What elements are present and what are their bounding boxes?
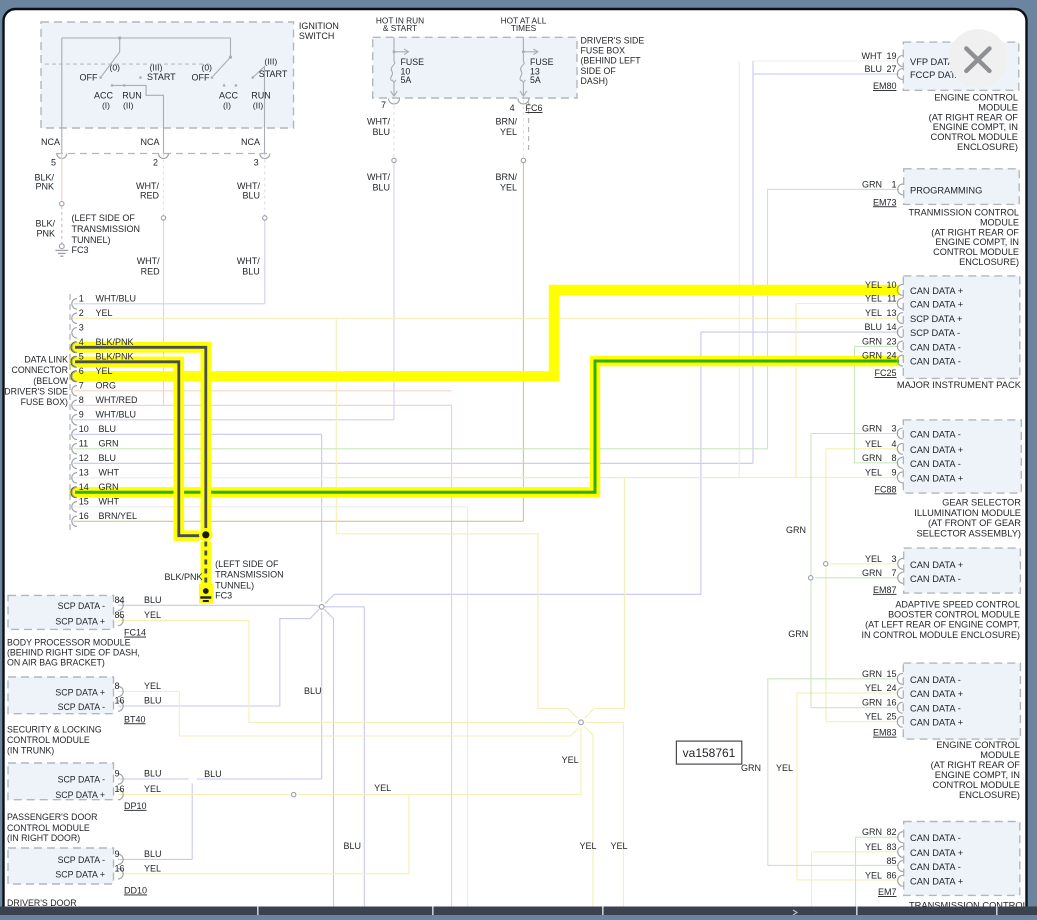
svg-text:TIMES: TIMES: [511, 23, 537, 33]
svg-text:GRN: GRN: [862, 698, 882, 708]
svg-text:GRN: GRN: [862, 453, 882, 463]
svg-text:14: 14: [886, 322, 896, 332]
svg-text:GRN: GRN: [862, 336, 882, 346]
svg-text:9: 9: [115, 769, 120, 779]
svg-text:23: 23: [886, 336, 896, 346]
highlight blobs at DLC pins 4 5 6 14: [69, 342, 80, 353]
wire YEL CAN DATA + FC88 pin9 long horizontal: [336, 476, 899, 478]
wire BLK/PNK ignition pin5 down: [61, 154, 63, 202]
data link connector pin hooks: [72, 299, 77, 309]
ignition switch wiper 2: [229, 56, 232, 59]
svg-text:START: START: [147, 72, 176, 82]
svg-text:YEL: YEL: [865, 439, 882, 449]
svg-text:16: 16: [886, 698, 896, 708]
svg-text:CAN DATA -: CAN DATA -: [910, 862, 961, 872]
inline connector fuse10 wire: [392, 158, 396, 162]
svg-text:1: 1: [891, 179, 896, 189]
svg-text:YEL: YEL: [500, 182, 517, 192]
ignition switch RUN output wire to pin2: [112, 85, 164, 153]
svg-text:24: 24: [886, 683, 896, 693]
inline connector pin5: [60, 202, 64, 206]
svg-text:(BEHIND LEFT: (BEHIND LEFT: [581, 56, 642, 66]
wire YEL to junction northeast: [585, 477, 625, 718]
wire YEL junction southeast to bottom: [584, 726, 593, 907]
svg-text:5A: 5A: [530, 75, 541, 85]
svg-text:BLU: BLU: [99, 424, 117, 434]
wire WHT/RED ignition pin2 down: [163, 154, 165, 216]
wire GRN FC25 pin23 to FC88 pin8: [855, 346, 900, 462]
module BT40 security and locking box: [8, 677, 114, 714]
svg-text:SIDE OF: SIDE OF: [581, 66, 617, 76]
svg-text:BLU: BLU: [144, 769, 162, 779]
wire YEL SCP DATA + DLC pin2 to FC25 pin13: [74, 317, 899, 319]
svg-text:YEL: YEL: [865, 871, 882, 881]
svg-text:SWITCH: SWITCH: [299, 31, 335, 41]
svg-text:GRN: GRN: [741, 763, 761, 773]
svg-text:1: 1: [79, 293, 84, 303]
svg-text:7: 7: [891, 568, 896, 578]
svg-text:MODULE: MODULE: [980, 750, 1020, 760]
svg-text:27: 27: [886, 64, 896, 74]
wire WHT/BLU ignition pin3 to DLC pin1: [264, 154, 266, 216]
bottom bar chevron: [793, 910, 797, 915]
svg-text:(AT RIGHT REAR OF: (AT RIGHT REAR OF: [931, 227, 1019, 237]
wire GRN EM83 pin15 to EM7 pin85: [768, 679, 899, 866]
svg-text:CAN DATA +: CAN DATA +: [910, 689, 963, 699]
svg-text:YEL: YEL: [579, 841, 596, 851]
svg-text:2: 2: [153, 158, 158, 168]
svg-text:86: 86: [886, 871, 896, 881]
svg-text:OFF: OFF: [80, 73, 98, 83]
svg-text:YEL: YEL: [865, 294, 882, 304]
svg-text:DRIVER'S DOOR: DRIVER'S DOOR: [7, 898, 77, 908]
svg-text:BRN/YEL: BRN/YEL: [99, 511, 138, 521]
wire GRN DLC pin11 to TCM EM73 pin1: [74, 189, 899, 448]
svg-text:ORG: ORG: [96, 380, 117, 390]
svg-text:TUNNEL): TUNNEL): [72, 235, 111, 245]
svg-text:BLU: BLU: [144, 849, 162, 859]
svg-text:PASSENGER'S DOOR: PASSENGER'S DOOR: [7, 812, 97, 822]
wire YEL CAN DATA + highlighted: DLC pin6 to FC25 pin10: [75, 290, 899, 376]
svg-text:ENCLOSURE): ENCLOSURE): [959, 257, 1019, 267]
close button (X): [949, 29, 1007, 87]
module FC14 body processor box: [8, 595, 114, 629]
svg-text:CONTROL MODULE: CONTROL MODULE: [931, 132, 1018, 142]
svg-text:YEL: YEL: [610, 841, 627, 851]
svg-text:SCP DATA -: SCP DATA -: [58, 601, 105, 611]
svg-text:(I): (I): [223, 101, 231, 111]
svg-text:IGNITION: IGNITION: [299, 21, 339, 31]
svg-text:CONTROL MODULE: CONTROL MODULE: [933, 780, 1020, 790]
svg-text:YEL: YEL: [96, 366, 113, 376]
svg-text:13: 13: [886, 308, 896, 318]
svg-text:9: 9: [115, 849, 120, 859]
svg-text:11: 11: [79, 438, 88, 448]
ignition connector pin hooks: [57, 154, 67, 159]
svg-text:BLK/: BLK/: [35, 219, 55, 229]
svg-text:WHT/BLU: WHT/BLU: [96, 409, 137, 419]
wire BLK/PNK DLC pin4 highlighted: [75, 347, 206, 530]
svg-text:YEL: YEL: [562, 755, 579, 765]
svg-text:BLU: BLU: [144, 696, 162, 706]
connector FC6 dashed stub: [528, 100, 530, 152]
svg-text:3: 3: [891, 554, 896, 564]
wire BLK/PNK dashed to ground FC3: [201, 542, 212, 585]
svg-text:VFP DATA: VFP DATA: [910, 57, 955, 67]
svg-text:(II): (II): [123, 101, 134, 111]
svg-text:GRN: GRN: [862, 827, 882, 837]
svg-text:BLU: BLU: [372, 182, 390, 192]
svg-text:YEL: YEL: [500, 127, 517, 137]
bottom taskbar: [0, 907, 1037, 916]
svg-text:FC3: FC3: [72, 245, 89, 255]
svg-text:ENGINE COMPT, IN: ENGINE COMPT, IN: [933, 122, 1018, 132]
svg-text:3: 3: [79, 322, 84, 332]
svg-text:4: 4: [79, 337, 84, 347]
module FC25 major instrument pack box: [903, 276, 1020, 379]
svg-text:YEL: YEL: [96, 308, 113, 318]
inline connector pin3: [263, 216, 267, 220]
svg-text:TUNNEL): TUNNEL): [215, 580, 254, 590]
wire BLU junction east to bottom: [325, 606, 365, 608]
svg-text:DASH): DASH): [581, 76, 608, 86]
svg-text:va158761: va158761: [683, 746, 736, 760]
svg-text:16: 16: [79, 511, 89, 521]
svg-text:FC6: FC6: [526, 103, 543, 113]
svg-text:(LEFT SIDE OF: (LEFT SIDE OF: [215, 559, 279, 569]
fuse element: [522, 38, 524, 62]
svg-text:85: 85: [886, 856, 896, 866]
svg-text:WHT/: WHT/: [237, 256, 260, 266]
svg-text:TRANSMISSION: TRANSMISSION: [215, 570, 284, 580]
svg-text:WHT: WHT: [99, 496, 120, 506]
svg-text:5A: 5A: [401, 75, 412, 85]
svg-text:ENGINE COMPT, IN: ENGINE COMPT, IN: [935, 237, 1019, 247]
svg-text:SCP DATA +: SCP DATA +: [55, 869, 105, 879]
svg-text:CAN DATA +: CAN DATA +: [910, 560, 963, 570]
svg-text:12: 12: [79, 453, 89, 463]
svg-text:WHT/: WHT/: [136, 181, 159, 191]
svg-text:9: 9: [891, 467, 896, 477]
svg-text:ON AIR BAG BRACKET): ON AIR BAG BRACKET): [7, 658, 105, 668]
driver side fuse box: [373, 37, 577, 98]
svg-text:15: 15: [886, 669, 896, 679]
svg-text:25: 25: [886, 712, 896, 722]
svg-text:(IN RIGHT DOOR): (IN RIGHT DOOR): [7, 833, 80, 843]
svg-text:BLU: BLU: [204, 769, 222, 779]
svg-text:(LEFT SIDE OF: (LEFT SIDE OF: [72, 213, 136, 223]
svg-text:4: 4: [891, 439, 896, 449]
svg-text:EM73: EM73: [873, 197, 897, 207]
svg-text:YEL: YEL: [374, 783, 391, 793]
svg-text:(BELOW: (BELOW: [33, 376, 68, 386]
svg-text:DP10: DP10: [124, 801, 147, 811]
wire BLU junction southeast to bottom: [324, 609, 333, 906]
svg-text:SCP DATA -: SCP DATA -: [58, 855, 105, 865]
svg-text:4: 4: [510, 103, 515, 113]
ignition switch START output wire to pin3: [253, 67, 265, 154]
svg-text:BOOSTER CONTROL MODULE: BOOSTER CONTROL MODULE: [888, 610, 1020, 620]
svg-text:DD10: DD10: [124, 886, 147, 896]
svg-text:YEL: YEL: [144, 784, 161, 794]
inline connector pin2: [161, 216, 165, 220]
svg-text:DRIVER'S SIDE: DRIVER'S SIDE: [581, 36, 645, 46]
svg-text:FC3: FC3: [215, 590, 232, 600]
svg-text:(IN TRUNK): (IN TRUNK): [7, 746, 54, 756]
svg-text:& START: & START: [383, 23, 417, 33]
ignition switch box: [41, 22, 294, 128]
wire GRN EM7 pin82 down: [855, 837, 857, 906]
svg-text:CAN DATA -: CAN DATA -: [910, 704, 961, 714]
svg-text:(II): (II): [253, 101, 264, 111]
svg-text:9: 9: [79, 409, 84, 419]
svg-text:8: 8: [79, 395, 84, 405]
svg-text:GRN: GRN: [862, 179, 882, 189]
wire YEL junction east to bottom: [586, 722, 624, 906]
svg-text:(III): (III): [150, 63, 163, 73]
svg-text:ADAPTIVE SPEED CONTROL: ADAPTIVE SPEED CONTROL: [895, 599, 1020, 609]
svg-text:15: 15: [79, 496, 89, 506]
svg-text:8: 8: [115, 681, 120, 691]
svg-text:CAN DATA -: CAN DATA -: [910, 459, 961, 469]
wire YEL branch down from pin2 row: [335, 318, 337, 534]
svg-text:82: 82: [886, 827, 896, 837]
svg-text:85: 85: [115, 610, 125, 620]
svg-text:TRANMISSION CONTROL: TRANMISSION CONTROL: [908, 208, 1019, 218]
wire WHT DLC pin15: [74, 506, 468, 508]
svg-text:MAJOR INSTRUMENT PACK: MAJOR INSTRUMENT PACK: [897, 379, 1022, 390]
inline connector EM87 GRN pin7: [809, 576, 813, 580]
inline connector EM87 YEL pin3: [824, 562, 828, 566]
svg-text:EM80: EM80: [873, 81, 897, 91]
wire YEL to junction northwest: [336, 534, 577, 718]
svg-text:BODY PROCESSOR MODULE: BODY PROCESSOR MODULE: [7, 638, 131, 648]
wire BLU junction to FC25 pin14 SCP DATA -: [325, 332, 899, 603]
svg-text:WHT/: WHT/: [137, 256, 160, 266]
wire GRN CAN DATA - highlighted: DLC pin14 to FC25 pin24: [75, 361, 899, 492]
svg-text:FUSE BOX): FUSE BOX): [21, 397, 68, 407]
svg-text:CONTROL MODULE: CONTROL MODULE: [933, 247, 1019, 257]
svg-text:BLU: BLU: [242, 267, 260, 277]
svg-text:GRN: GRN: [99, 438, 119, 448]
ignition switch internal bus: [62, 37, 231, 39]
svg-text:13: 13: [79, 467, 89, 477]
ignition switch wiper 1: [118, 36, 121, 39]
svg-text:GRN: GRN: [862, 424, 882, 434]
svg-text:3: 3: [254, 158, 259, 168]
svg-text:CAN DATA -: CAN DATA -: [910, 430, 961, 440]
module EM7 transmission control box: [904, 822, 1020, 896]
svg-text:PROGRAMMING: PROGRAMMING: [910, 185, 982, 195]
svg-text:EM7: EM7: [878, 887, 897, 897]
svg-text:WHT/: WHT/: [367, 172, 390, 182]
svg-text:24: 24: [886, 351, 896, 361]
wire BLU junction down to DP10 pin9: [321, 612, 323, 780]
svg-text:RUN: RUN: [251, 91, 271, 101]
svg-text:FC14: FC14: [124, 628, 146, 638]
svg-text:BLU: BLU: [864, 322, 882, 332]
svg-text:(AT RIGHT REAR OF: (AT RIGHT REAR OF: [929, 112, 1019, 122]
svg-text:(AT LEFT REAR OF ENGINE COMPT,: (AT LEFT REAR OF ENGINE COMPT,: [865, 620, 1020, 630]
wire YEL EM7 pin83 down: [811, 852, 813, 907]
svg-text:WHT: WHT: [99, 467, 120, 477]
svg-text:FC25: FC25: [874, 368, 896, 378]
svg-text:CAN DATA -: CAN DATA -: [910, 833, 961, 843]
fuse box bottom pin hooks: [389, 99, 400, 105]
svg-text:84: 84: [115, 595, 125, 605]
svg-text:ENGINE CONTROL: ENGINE CONTROL: [936, 740, 1020, 750]
svg-text:2: 2: [79, 308, 84, 318]
svg-text:RED: RED: [141, 267, 161, 277]
wire BLU DLC pin12 to ECM EM80 pin27: [74, 462, 753, 464]
wire BRN/YEL fuse13 to DLC pin16: [522, 100, 524, 158]
wire WHT DLC pin13: [74, 477, 740, 479]
svg-text:CAN DATA -: CAN DATA -: [910, 675, 961, 685]
svg-text:16: 16: [115, 784, 125, 794]
wire YEL junction south to DP10 pin16: [580, 727, 582, 795]
svg-text:GRN: GRN: [862, 669, 882, 679]
data link connector dashed edge: [69, 294, 71, 531]
svg-text:PNK: PNK: [35, 182, 54, 192]
svg-text:GRN: GRN: [862, 351, 882, 361]
svg-text:10: 10: [886, 280, 896, 290]
svg-text:DRIVER'S SIDE: DRIVER'S SIDE: [4, 387, 68, 397]
svg-text:19: 19: [886, 51, 896, 61]
ignition connector dashed line: [56, 153, 270, 155]
module FC88 gear selector illumination box: [903, 420, 1021, 493]
svg-text:BT40: BT40: [124, 714, 146, 724]
svg-text:MODULE: MODULE: [980, 217, 1019, 227]
svg-text:7: 7: [79, 380, 84, 390]
svg-text:YEL: YEL: [144, 863, 161, 873]
svg-text:ILLUMINATION MODULE: ILLUMINATION MODULE: [914, 508, 1021, 518]
svg-text:CAN DATA -: CAN DATA -: [910, 574, 961, 584]
module TCM EM73 box: [904, 169, 1020, 205]
svg-text:GEAR SELECTOR: GEAR SELECTOR: [942, 498, 1021, 508]
svg-text:3: 3: [891, 424, 896, 434]
svg-text:NCA: NCA: [140, 137, 159, 147]
junction node YEL (inline connector): [579, 720, 584, 725]
svg-text:CAN DATA -: CAN DATA -: [910, 342, 961, 352]
svg-text:ENCLOSURE): ENCLOSURE): [957, 142, 1018, 152]
svg-text:(AT RIGHT REAR OF: (AT RIGHT REAR OF: [931, 760, 1021, 770]
wire GRN CAN- FC88 pin3 / EM87 pin7 / EM83 pin16 riser: [810, 434, 812, 708]
svg-text:6: 6: [79, 366, 84, 376]
wire WHT/RED DLC pin8: [74, 404, 452, 406]
svg-text:YEL: YEL: [865, 712, 882, 722]
inline connector fuse13 wire: [521, 158, 525, 162]
module EM83 engine control box: [903, 663, 1020, 739]
wire YEL DD10 pin16 riser: [118, 873, 409, 875]
svg-text:5: 5: [79, 351, 84, 361]
svg-text:YEL: YEL: [865, 554, 882, 564]
svg-text:BRN/: BRN/: [495, 172, 517, 182]
svg-text:BLU: BLU: [372, 127, 390, 137]
module EM87 adaptive speed control box: [904, 548, 1021, 593]
svg-text:ACC: ACC: [219, 91, 239, 101]
svg-text:CAN DATA +: CAN DATA +: [910, 300, 963, 310]
wire YEL FC14 pin85 to junction west: [118, 620, 576, 722]
module DD10 driver door box: [8, 848, 114, 884]
svg-text:OFF: OFF: [192, 73, 210, 83]
svg-text:CAN DATA +: CAN DATA +: [910, 286, 963, 296]
svg-text:GRN: GRN: [786, 525, 806, 535]
svg-text:BLU: BLU: [99, 453, 117, 463]
fuse element: [393, 38, 395, 62]
svg-text:CAN DATA +: CAN DATA +: [910, 473, 963, 483]
svg-text:SCP DATA -: SCP DATA -: [910, 328, 960, 338]
svg-text:(0): (0): [202, 63, 213, 73]
wire BLU junction to BT40 pin16: [118, 609, 319, 706]
svg-text:(III): (III): [264, 57, 277, 67]
ignition switch contacts: [99, 76, 102, 79]
svg-text:BLK/PNK: BLK/PNK: [96, 351, 134, 361]
svg-text:YEL: YEL: [144, 610, 161, 620]
ground FC3 (upper): [59, 244, 64, 249]
svg-text:EM87: EM87: [873, 585, 897, 595]
svg-text:SCP DATA +: SCP DATA +: [910, 314, 962, 324]
svg-text:SECURITY & LOCKING: SECURITY & LOCKING: [7, 725, 102, 735]
svg-text:NCA: NCA: [241, 137, 260, 147]
svg-text:CAN DATA +: CAN DATA +: [910, 718, 963, 728]
svg-text:8: 8: [891, 453, 896, 463]
svg-text:GRN: GRN: [862, 568, 882, 578]
svg-text:MODULE: MODULE: [978, 102, 1018, 112]
svg-text:EM83: EM83: [873, 728, 897, 738]
wire BLU DD10 pin9 riser: [191, 784, 193, 860]
svg-text:ENGINE CONTROL: ENGINE CONTROL: [934, 93, 1018, 103]
svg-text:CONTROL MODULE: CONTROL MODULE: [7, 823, 90, 833]
svg-text:11: 11: [887, 294, 896, 304]
svg-text:SCP DATA -: SCP DATA -: [58, 774, 105, 784]
wire YEL EM83 pin24 to EM7 pin86: [797, 693, 899, 880]
svg-text:YEL: YEL: [865, 683, 882, 693]
module ECM EM80 box: [903, 42, 1019, 90]
svg-text:CAN DATA -: CAN DATA -: [910, 357, 961, 367]
wire BLU DLC pin10 to junction: [74, 433, 322, 435]
junction node BLU (inline connector): [319, 604, 324, 609]
svg-text:WHT/RED: WHT/RED: [96, 395, 138, 405]
svg-text:RUN: RUN: [122, 91, 142, 101]
svg-text:GRN: GRN: [788, 629, 808, 639]
svg-text:START: START: [259, 69, 288, 79]
svg-text:YEL: YEL: [144, 681, 161, 691]
svg-text:CAN DATA +: CAN DATA +: [910, 877, 963, 887]
svg-text:YEL: YEL: [865, 308, 882, 318]
svg-text:(I): (I): [102, 101, 110, 111]
ignition switch mechanical linkage (dashed): [45, 63, 209, 65]
svg-text:IN CONTROL MODULE ENCLOSURE): IN CONTROL MODULE ENCLOSURE): [861, 630, 1020, 640]
svg-text:FC88: FC88: [874, 484, 896, 494]
svg-text:ENCLOSURE): ENCLOSURE): [959, 790, 1020, 800]
svg-text:10: 10: [79, 424, 89, 434]
svg-text:YEL: YEL: [865, 467, 882, 477]
svg-text:RED: RED: [140, 191, 160, 201]
svg-text:BLU: BLU: [144, 595, 162, 605]
wire WHT/BLU fuse10 to DLC pin9: [393, 100, 395, 158]
svg-text:WHT/: WHT/: [237, 181, 260, 191]
svg-text:GRN: GRN: [99, 482, 119, 492]
wire WHT ECM EM80 pin19: [753, 60, 899, 62]
svg-text:YEL: YEL: [776, 763, 793, 773]
svg-text:YEL: YEL: [865, 842, 882, 852]
svg-text:BLU: BLU: [242, 191, 260, 201]
svg-text:WHT/BLU: WHT/BLU: [96, 293, 137, 303]
svg-text:83: 83: [886, 842, 896, 852]
va158761 reference box: [676, 741, 741, 764]
svg-text:SCP DATA -: SCP DATA -: [58, 702, 105, 712]
svg-text:TRANSMISSION: TRANSMISSION: [72, 224, 141, 234]
